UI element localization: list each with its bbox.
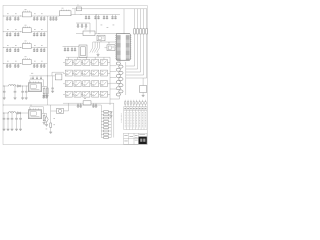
IC U6 small box [97,33,105,42]
caps C34-C35 [42,94,48,98]
key switch S13 [83,81,90,87]
resistor R5 pullup column [126,9,147,78]
power supply section PS2 (L2, D13, U3) [3,105,49,131]
crystal Y1 [79,45,87,58]
wire chain right bus [125,62,127,95]
transistor Q1 bias network [30,72,65,97]
filter row F1 (caps + IC) [3,9,47,20]
transistor Q2 driver [46,103,69,133]
power supply section PS1 (L1, D12, U2) [3,78,48,100]
key switch S2 [74,60,81,66]
key switch S7 [74,70,81,76]
bus ripper to U1 [90,42,117,53]
filter row F3 (caps + IC) [3,41,47,52]
key switch S18 [83,91,90,97]
resistor ladder RN1 [101,105,111,138]
key switch S8 [83,70,90,76]
wire FL2 down [113,103,115,137]
ground near Y1 [97,53,100,57]
wire vertical bus right of filter rows [46,16,48,105]
connector pin table J1 [124,100,147,130]
key switch S14 [92,81,99,87]
wire matrix row bus 4 [63,93,110,95]
sheet border frame [3,5,147,144]
caps C30-C33 near Y1 [63,47,80,51]
decoupling caps C20-C25 on node B rail [85,15,120,19]
key switch S4 [92,60,99,66]
diodes D14-D15 [110,112,113,118]
diode chain D1-D11 [110,61,123,100]
key switch S1 [65,60,72,66]
filter row F2 (caps + IC) [3,25,47,36]
wire rail to U1 top [123,9,125,34]
IC U1 (main controller) [115,34,131,61]
key switch S3 [83,60,90,66]
filter FL2 row [63,98,114,107]
wire matrix collector [109,57,111,105]
IC U5 (top middle) [59,8,71,16]
wire U5 output to node B [71,14,96,15]
wire top rail VCC with ferrite FB1 [72,5,147,15]
key switch S20 [100,91,107,97]
wire node B down [96,14,115,33]
wire matrix row bus 2 [63,72,110,74]
logo (dark) [139,137,147,144]
key switch S11 [65,81,72,87]
key switch S12 [74,81,81,87]
IC U7 small box [105,43,116,51]
wire matrix row bus 3 [63,83,110,85]
filter row F4 (caps + IC) [3,56,47,67]
key switch S19 [92,91,99,97]
IC U8 right box [140,78,147,97]
wires matrix rows to diode chain [110,66,116,89]
key switch S6 [65,70,72,76]
resistor R4 pullup column [126,9,144,75]
key switch S17 [74,91,81,97]
wire row1 to U5 with caps C17-C19 [47,16,59,20]
resistor R1 pullup column [126,9,135,66]
caps C26-C28 at node C [76,23,90,34]
filter FL1 to U1 [76,29,117,36]
resistor R2 pullup column [126,9,138,69]
net label left of J1 [120,114,122,123]
resistor R3 pullup column [126,9,141,72]
key switch S15 [100,81,107,87]
key switch S16 [65,91,72,97]
wire matrix column bus [66,57,110,59]
wire matrix row bus 1 [63,62,110,64]
wire 3V3 rail [3,104,101,107]
title block [124,133,148,144]
key switch S10 [100,70,107,76]
key switch S9 [92,70,99,76]
key switch S5 [100,60,107,66]
